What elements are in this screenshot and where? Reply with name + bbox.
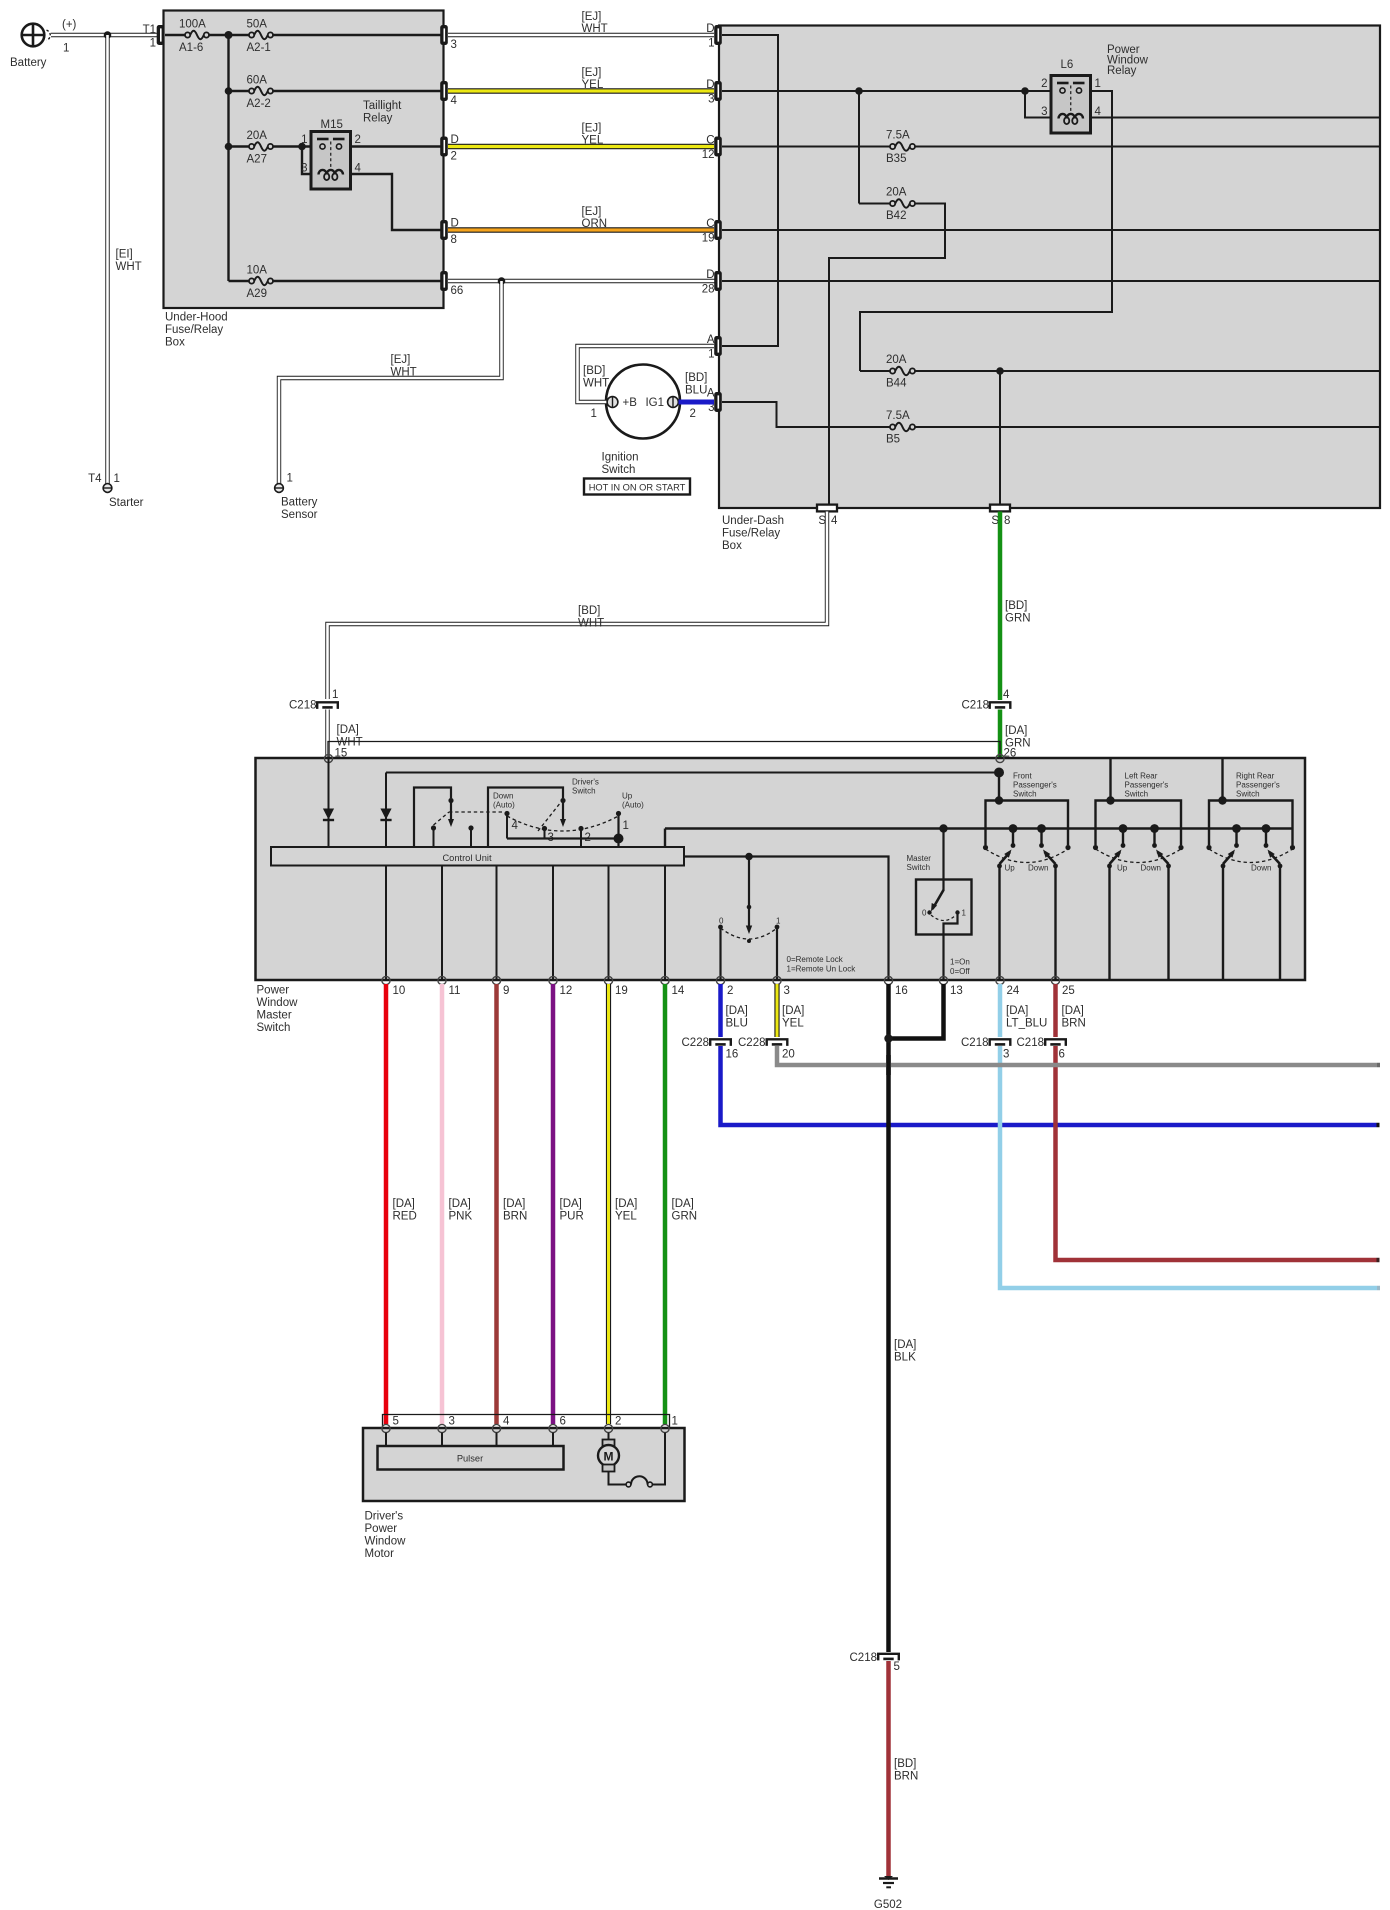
wire [DA] GRN C218 to pin 26 [998,710,1003,758]
svg-text:2: 2 [615,1416,621,1428]
right rear passenger switch arc [1209,849,1293,863]
right rear passenger switch down wiper [1262,824,1271,833]
svg-text:WHT: WHT [116,261,142,273]
left rear passenger switch arc [1096,849,1182,863]
svg-text:[DA]: [DA] [449,1198,471,1210]
svg-text:Down: Down [1141,864,1161,873]
svg-text:Switch: Switch [1236,790,1260,799]
svg-text:3: 3 [451,39,457,51]
svg-text:[BD]: [BD] [583,365,605,377]
svg-text:C: C [706,218,714,230]
wire [DA] LT_BLU pin24 [998,984,1003,1037]
motor connector strip [383,1415,670,1428]
motor circuit breaker loop [609,1472,627,1485]
wire pin19 [608,866,610,981]
svg-text:C: C [706,135,714,147]
svg-text:C218: C218 [962,700,990,712]
pin 66 under-hood [440,271,448,291]
wire [BD] WHT +B to A1 [578,346,715,402]
connector C218 pin 3 [990,1039,1011,1046]
svg-text:Passenger's: Passenger's [1125,781,1169,790]
wires pins to pulser [385,1433,387,1447]
svg-text:12: 12 [702,149,715,161]
svg-text:BLU: BLU [726,1018,748,1030]
wire control unit to pin16 [684,857,889,981]
svg-text:3: 3 [1041,106,1047,118]
fuse 20A B42 [890,198,916,209]
pin 3 under-hood [440,25,448,45]
pin D3 under-dash [714,81,722,101]
wire [DA] PUR pin12 to motor 6 [551,984,556,1424]
pin D2 under-hood [440,137,448,157]
svg-text:28: 28 [702,284,715,296]
starter terminal T4 [103,484,112,493]
svg-text:[DA]: [DA] [393,1198,415,1210]
wire M15 pin3 branch [302,147,311,175]
svg-text:6: 6 [1059,1049,1065,1061]
wire [BD] GRN S8 to C218 [998,512,1003,701]
svg-text:1: 1 [708,349,714,361]
svg-text:[EJ]: [EJ] [582,123,602,135]
connector C218 pin 4 [990,702,1011,709]
svg-text:1: 1 [672,1416,678,1428]
svg-text:1: 1 [1095,78,1101,90]
svg-text:BLU: BLU [685,385,707,397]
power window relay L6 [1041,59,1101,133]
pin 12 master switch [549,976,557,984]
svg-text:1: 1 [150,38,156,50]
svg-text:3: 3 [708,94,714,106]
front passenger switch arc [986,849,1069,863]
svg-text:7.5A: 7.5A [886,130,910,142]
motor pin circle [492,1424,500,1432]
svg-text:[DA]: [DA] [894,1339,916,1351]
taillight relay M15 [301,119,361,189]
connector C218 pin 1 [317,702,338,709]
svg-text:Switch: Switch [907,863,931,872]
svg-text:0=Remote Lock: 0=Remote Lock [787,955,844,964]
svg-text:B42: B42 [886,210,906,222]
front passenger switch up output [998,866,1000,980]
svg-text:YEL: YEL [582,135,604,147]
pin 19 master switch [604,976,612,984]
wire [DA] BLU pin2 [718,984,723,1037]
svg-text:8: 8 [1004,515,1010,527]
svg-text:19: 19 [702,233,715,245]
svg-text:RED: RED [393,1211,417,1223]
svg-text:1: 1 [591,408,597,420]
contact 3 [542,826,547,831]
driver switch left contact frame [414,788,451,848]
terminal +B [607,397,618,408]
svg-text:[EJ]: [EJ] [582,11,602,23]
svg-text:GRN: GRN [672,1211,698,1223]
Power Window Master Switch [256,758,1306,980]
driver switch main frame [488,788,563,848]
svg-text:WHT: WHT [582,23,608,35]
wire main bus vertical [227,35,229,281]
ground G502 [884,1876,893,1880]
wire battery to T1 (WHT) [51,33,158,37]
wire main feed row [165,34,441,36]
svg-text:C218: C218 [289,700,317,712]
svg-text:Fuse/Relay: Fuse/Relay [165,324,223,336]
svg-text:BLK: BLK [894,1352,916,1364]
junction main bus [225,31,233,39]
svg-text:1=On: 1=On [950,958,970,967]
svg-text:[DA]: [DA] [337,724,359,736]
connector C218 pin 5 [878,1654,899,1661]
svg-text:D: D [706,269,714,281]
fuse 100A A1-6 [185,30,210,41]
svg-text:Box: Box [165,337,185,349]
svg-text:G502: G502 [874,1899,902,1910]
junction battery feed [104,31,112,39]
svg-text:20A: 20A [886,354,907,366]
svg-text:[EJ]: [EJ] [582,206,602,218]
svg-text:(Auto): (Auto) [622,801,644,810]
svg-text:D: D [706,79,714,91]
svg-text:[DA]: [DA] [560,1198,582,1210]
pin 16 master switch [884,976,892,984]
svg-text:Taillight: Taillight [363,100,402,112]
pin 24 master switch [996,976,1004,984]
wire [EJ] WHT row 3-D1 [448,33,714,37]
left rear passenger switch down output [1167,866,1169,980]
front passenger switch frame [986,801,1069,846]
svg-text:14: 14 [672,985,685,997]
svg-text:Fuse/Relay: Fuse/Relay [722,528,780,540]
svg-text:[DA]: [DA] [1062,1005,1084,1017]
svg-text:T1: T1 [143,24,156,36]
svg-text:16: 16 [726,1049,739,1061]
wire B44 to S8 [999,371,1001,505]
svg-text:WHT: WHT [391,367,417,379]
svg-text:PUR: PUR [560,1211,584,1223]
wire L6 pin1 to B44 [860,91,1112,371]
svg-text:[EJ]: [EJ] [582,67,602,79]
svg-text:+B: +B [623,397,638,409]
svg-text:M15: M15 [321,119,343,131]
svg-text:(Auto): (Auto) [493,801,515,810]
feed line to passenger switches [386,772,999,774]
junction 60A tap [225,87,233,95]
wire 60A row [229,90,442,92]
svg-text:Window: Window [365,1536,407,1548]
svg-text:10: 10 [393,985,406,997]
svg-text:15: 15 [335,748,348,760]
master switch wiper [933,890,944,909]
svg-text:20A: 20A [247,130,268,142]
left rear passenger switch up output [1108,866,1110,980]
svg-text:Switch: Switch [572,787,596,796]
svg-text:20: 20 [782,1049,795,1061]
svg-text:11: 11 [449,985,461,997]
svg-text:B35: B35 [886,153,906,165]
svg-text:GRN: GRN [1005,613,1031,625]
svg-text:A2-2: A2-2 [247,98,271,110]
svg-text:Down: Down [493,792,513,801]
wire D3 row [722,90,1051,92]
pin A1 under-dash [714,336,722,356]
svg-text:Switch: Switch [1013,790,1037,799]
svg-text:9: 9 [503,985,509,997]
linkage arc driver switch [507,816,619,831]
pin 25 master switch [1051,976,1059,984]
svg-text:A27: A27 [247,154,267,166]
svg-text:Down: Down [1251,864,1271,873]
wire B44 row [915,370,1380,372]
svg-text:T4: T4 [88,473,102,485]
wire pin9 [496,866,498,981]
svg-text:4: 4 [355,163,362,175]
svg-text:4: 4 [503,1416,510,1428]
svg-text:C228: C228 [682,1037,710,1049]
svg-text:[DA]: [DA] [726,1005,748,1017]
svg-text:B5: B5 [886,434,900,446]
svg-text:10A: 10A [247,265,268,277]
battery B+ terminal [10,19,77,69]
svg-text:1: 1 [623,820,629,832]
svg-text:0: 0 [922,909,927,918]
wire B5 row [915,426,1380,428]
wire C12 row [722,146,1380,148]
wire pin11 [441,866,443,981]
svg-text:16: 16 [895,985,908,997]
svg-text:Box: Box [722,540,742,552]
svg-text:YEL: YEL [782,1018,804,1030]
svg-text:26: 26 [1004,748,1017,760]
wire [EJ] YEL row 4-D3 [448,88,714,94]
pin 4 under-hood [440,81,448,101]
pin A3 under-dash [714,392,722,412]
svg-text:4: 4 [451,95,458,107]
svg-text:A29: A29 [247,288,267,300]
front passenger switch down wiper [1037,824,1046,833]
wire [BD] BLU IG1 to A3 [679,400,715,405]
svg-text:BRN: BRN [1062,1018,1086,1030]
master switch arc [931,915,956,921]
wire pin10 [385,866,387,981]
svg-text:[DA]: [DA] [1006,1005,1028,1017]
svg-text:C228: C228 [738,1037,766,1049]
right rear passenger switch up output [1222,866,1224,980]
svg-text:[EJ]: [EJ] [391,354,411,366]
svg-text:C218: C218 [1017,1037,1045,1049]
pin 11 master switch [438,976,446,984]
svg-text:Switch: Switch [1125,790,1149,799]
linkage dashes left [434,812,450,825]
svg-text:Control Unit: Control Unit [442,853,492,863]
wire [DA] WHT C218 to pin 15 [325,710,329,758]
svg-text:Ignition: Ignition [602,452,639,464]
right rear passenger switch up wiper [1232,824,1241,833]
motor M [608,1433,610,1440]
svg-text:0: 0 [719,917,724,926]
svg-text:Switch: Switch [257,1022,291,1034]
svg-text:6: 6 [560,1416,566,1428]
svg-text:1=Remote Un Lock: 1=Remote Un Lock [787,965,857,974]
svg-text:[DA]: [DA] [672,1198,694,1210]
svg-text:Master: Master [907,854,932,863]
front passenger switch up wiper [1009,824,1018,833]
svg-text:0=Off: 0=Off [950,967,970,976]
connector C218 pin 6 [1045,1039,1066,1046]
svg-text:A2-1: A2-1 [247,42,271,54]
pin 10 master switch [382,976,390,984]
fuse 20A B44 [860,370,890,372]
svg-text:2: 2 [451,151,457,163]
svg-text:[BD]: [BD] [578,605,600,617]
connector C228 pin 20 [767,1039,788,1046]
svg-text:1: 1 [63,43,69,55]
svg-text:19: 19 [615,985,628,997]
pin strip master switch top [328,742,1000,759]
left rear passenger switch up wiper [1119,824,1128,833]
svg-text:Front: Front [1013,772,1032,781]
svg-text:50A: 50A [247,19,268,31]
front passenger switch feed [994,768,1004,778]
wire [DA] BLK pin16 [886,984,891,1652]
wire [DA] PNK pin11 to motor 3 [440,984,445,1424]
pin D8 under-hood [440,220,448,240]
svg-text:LT_BLU: LT_BLU [1006,1018,1047,1030]
wire D28 row [722,280,1380,282]
svg-text:WHT: WHT [578,618,604,630]
svg-text:1: 1 [114,473,120,485]
svg-text:[EI]: [EI] [116,249,133,261]
wire 10A row [229,280,442,282]
svg-text:4: 4 [831,515,838,527]
svg-text:4: 4 [1003,689,1010,701]
svg-text:Motor: Motor [365,1548,395,1560]
svg-text:1: 1 [776,917,781,926]
contact 2 [578,826,583,831]
wire [DA] RED pin10 to motor 5 [384,984,389,1424]
driver switch left contacts [431,825,436,830]
front passenger switch down output [1054,866,1056,980]
motor pin circle [438,1424,446,1432]
svg-text:Window: Window [257,997,299,1009]
terminal T1 [157,25,165,45]
motor pin circle [661,1424,669,1432]
pin 26 circle [996,754,1004,762]
svg-text:1: 1 [287,473,293,485]
wire M15 pin2 to D2 [351,145,442,147]
pin 9 master switch [492,976,500,984]
connector S4 [817,505,837,512]
svg-text:7.5A: 7.5A [886,410,910,422]
wire BLU to right [721,1046,1377,1125]
svg-text:Up: Up [622,792,633,801]
svg-text:Passenger's: Passenger's [1236,781,1280,790]
svg-text:[BD]: [BD] [685,372,707,384]
svg-text:20A: 20A [886,187,907,199]
svg-text:Under-Hood: Under-Hood [165,312,228,324]
svg-text:3: 3 [449,1416,455,1428]
svg-text:100A: 100A [179,19,206,31]
svg-text:2: 2 [1041,78,1047,90]
left rear passenger switch down wiper [1150,824,1159,833]
svg-text:[DA]: [DA] [1005,725,1027,737]
Under-Dash Fuse/Relay Box [719,26,1380,509]
pin C12 under-dash [714,137,722,157]
wire [BD] WHT S4 to C218 [328,512,828,700]
svg-text:B44: B44 [886,378,907,390]
wire L6 pin4 row [1091,117,1381,119]
bus stub from control unit [664,829,666,848]
switch bus [665,827,1293,829]
wire [EJ] YEL row D2-C12 [448,144,714,150]
wire [DA] GRN pin14 to motor 1 [663,984,668,1424]
svg-text:8: 8 [451,234,457,246]
svg-text:60A: 60A [247,75,268,87]
pin 3 master switch [773,976,781,984]
linkage dash to driver switch [538,802,561,831]
svg-text:5: 5 [894,1661,900,1673]
junction 20A tap [225,143,233,151]
svg-text:C218: C218 [961,1037,989,1049]
svg-text:Battery: Battery [10,57,47,69]
svg-text:[DA]: [DA] [503,1198,525,1210]
master switch mech [916,880,972,935]
remote lock arc [721,928,778,939]
svg-text:HOT IN ON OR START: HOT IN ON OR START [589,483,686,493]
junction D3-B42 tap [855,87,863,95]
svg-text:[BD]: [BD] [1005,600,1027,612]
remote lock arrow [748,857,750,928]
pin 2 master switch [716,976,724,984]
junction B44-S8 [996,367,1004,375]
right rear passenger switch down output [1279,866,1281,980]
svg-text:BRN: BRN [503,1211,527,1223]
wire BRN to right [1056,1046,1377,1260]
fuse 50A A2-1 [249,30,274,41]
driver switch common node [507,837,619,839]
svg-text:WHT: WHT [583,378,609,390]
junction relay L6 coil tap [1021,87,1029,95]
svg-text:Power: Power [257,985,290,997]
svg-text:Master: Master [257,1010,292,1022]
wire [EI] WHT battery to starter [105,35,109,484]
svg-text:Power: Power [365,1523,398,1535]
svg-text:YEL: YEL [615,1211,637,1223]
svg-text:Switch: Switch [602,464,636,476]
svg-text:Under-Dash: Under-Dash [722,515,784,527]
wire WHT row 66-D28 [448,279,718,283]
svg-text:Battery: Battery [281,497,318,509]
wire pin14 [664,866,666,981]
svg-text:4: 4 [512,820,519,832]
svg-text:Up: Up [1005,864,1016,873]
Driver's Power Window Motor box [363,1428,685,1501]
wire [EJ] WHT to battery sensor [279,281,502,484]
svg-text:Right Rear: Right Rear [1236,772,1275,781]
svg-text:[DA]: [DA] [615,1198,637,1210]
terminal IG1 [668,397,679,408]
svg-text:Passenger's: Passenger's [1013,781,1057,790]
svg-text:1: 1 [962,909,967,918]
pin 15 circle [324,754,332,762]
svg-text:Driver's: Driver's [572,778,599,787]
svg-text:Starter: Starter [109,497,144,509]
diode D1 internal [328,759,330,848]
svg-text:3: 3 [1003,1049,1009,1061]
pin 14 master switch [661,976,669,984]
motor pin circle [382,1424,390,1432]
svg-text:4: 4 [1095,106,1102,118]
junction relay coil tap [298,143,306,151]
